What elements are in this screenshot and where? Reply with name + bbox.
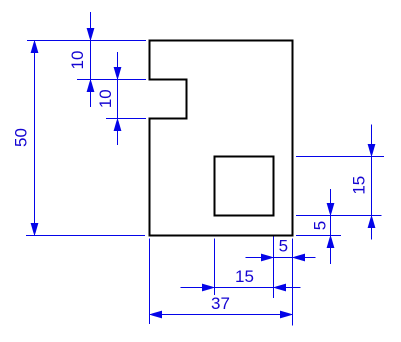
extension line square bottom right y=215 <box>296 215 382 217</box>
extension line square top right y=156 <box>296 156 384 158</box>
svg-text:15: 15 <box>235 267 254 286</box>
part outline <box>150 41 293 236</box>
dimension line 15 right <box>371 125 373 240</box>
dimension line 5 bottom <box>246 257 316 259</box>
svg-text:37: 37 <box>211 294 230 313</box>
extension line below square right x=273 <box>273 237 275 299</box>
square hole <box>215 157 274 216</box>
arrows: 50 dim (inside, pointing outward) <box>31 41 39 54</box>
arrows: 15 right <box>368 144 376 157</box>
extension line notch top y=80 <box>77 79 146 81</box>
extension line bottom-left y=235 <box>26 235 145 237</box>
arrows: 10 lower <box>114 67 122 80</box>
extension line below square left x=214 <box>214 239 216 296</box>
svg-text:5: 5 <box>310 221 329 230</box>
extension line top y=40 <box>27 40 146 42</box>
dimension line 10 upper <box>90 12 92 107</box>
extension line bottom-right y=235 <box>296 235 341 237</box>
arrows: 10 upper (outside, pointing inward) <box>87 28 95 41</box>
dimension line 15 bottom <box>181 287 301 289</box>
svg-text:50: 50 <box>12 128 31 147</box>
extension line notch bottom y=118 <box>106 118 146 120</box>
arrows: 15 bottom (outside) <box>202 284 215 292</box>
dimension line 5 right <box>330 189 332 264</box>
arrows: 37 (inside, pointing outward) <box>150 311 163 319</box>
extension line below right edge x=292 <box>292 239 294 326</box>
dimension line 10 lower <box>117 52 119 145</box>
dimension line 50 <box>34 41 36 236</box>
arrows: 5 bottom (outside) <box>261 254 274 262</box>
svg-text:15: 15 <box>350 176 369 195</box>
svg-text:10: 10 <box>68 51 87 70</box>
svg-text:5: 5 <box>279 236 288 255</box>
arrows: 5 right <box>327 203 335 216</box>
dimension line 37 <box>150 314 293 316</box>
svg-text:10: 10 <box>96 89 115 108</box>
extension line below left edge x=149 <box>149 239 151 325</box>
